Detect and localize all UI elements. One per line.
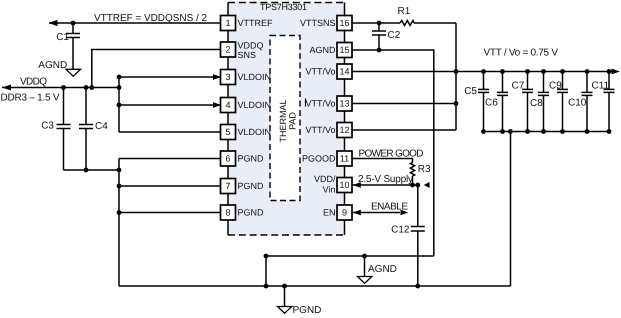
wire pin2 VDDQSNS net <box>92 50 221 88</box>
svg-text:DDR3 – 1.5 V: DDR3 – 1.5 V <box>1 93 60 104</box>
svg-text:PGND: PGND <box>238 208 265 218</box>
wire pin5 VLDOIN net <box>119 77 221 132</box>
svg-text:15: 15 <box>339 45 349 55</box>
svg-text:C2: C2 <box>388 30 401 41</box>
svg-text:C5: C5 <box>464 86 477 97</box>
wire pin14 VTT bus <box>352 69 620 75</box>
svg-text:AGND: AGND <box>309 45 336 55</box>
svg-text:2.5-V Supply: 2.5-V Supply <box>358 174 413 185</box>
wire pin6 PGND net <box>119 158 221 160</box>
svg-text:10: 10 <box>339 180 349 190</box>
svg-text:VTT/Vo: VTT/Vo <box>305 99 335 109</box>
capacitor C2 <box>372 23 401 50</box>
pin 10 <box>337 178 352 193</box>
svg-text:VDD/: VDD/ <box>314 174 336 184</box>
svg-text:VTT/Vo: VTT/Vo <box>305 67 335 77</box>
op-amp U1 TPS7H3301 body <box>228 2 345 235</box>
pin 14 <box>337 64 352 79</box>
wire capacitor bank bottom rail <box>481 129 609 286</box>
ground AGND under C1 <box>38 60 80 76</box>
wire pin11 PGOOD net with resistor R3 <box>352 159 415 188</box>
svg-text:VLDOIN: VLDOIN <box>238 72 272 82</box>
capacitor C5 <box>464 69 489 131</box>
wire pin7 PGND net <box>117 184 221 189</box>
pin 15 <box>337 43 352 58</box>
svg-text:4: 4 <box>225 100 230 110</box>
svg-text:R1: R1 <box>398 6 411 17</box>
pin 4 <box>221 98 236 113</box>
wire pin1 VTTREF net <box>49 20 221 26</box>
pin 12 <box>337 123 352 138</box>
svg-text:C6: C6 <box>485 98 498 109</box>
wire pin13 net <box>352 101 458 106</box>
pin 2 <box>221 42 236 57</box>
svg-text:VDDQ: VDDQ <box>20 77 47 88</box>
svg-text:VTTSNS: VTTSNS <box>300 18 336 28</box>
svg-text:C3: C3 <box>41 121 54 132</box>
wire pin10 supply net <box>352 182 429 188</box>
thermal pad <box>270 36 300 201</box>
capacitor C8 <box>530 69 549 134</box>
capacitor C10 <box>568 69 593 134</box>
pin 1 <box>221 16 236 31</box>
svg-text:C7: C7 <box>512 81 525 92</box>
svg-text:PGND: PGND <box>238 181 265 191</box>
svg-text:PGND: PGND <box>238 154 265 164</box>
svg-text:9: 9 <box>342 208 347 218</box>
svg-text:13: 13 <box>339 99 349 109</box>
capacitor C7 <box>512 69 534 134</box>
svg-text:C9: C9 <box>549 81 562 92</box>
svg-text:Vin: Vin <box>323 185 336 195</box>
capacitor C1 <box>56 21 80 70</box>
svg-text:AGND: AGND <box>38 60 67 71</box>
capacitor C12 <box>391 185 425 286</box>
svg-text:TPS7H3301: TPS7H3301 <box>260 2 307 12</box>
pin 7 <box>221 179 236 194</box>
capacitor C9 <box>549 69 568 134</box>
capacitor C3 <box>41 88 70 171</box>
svg-text:VTTREF: VTTREF <box>238 18 274 28</box>
svg-text:VTT / Vo = 0.75 V: VTT / Vo = 0.75 V <box>484 48 559 59</box>
capacitor C6 <box>485 69 508 134</box>
svg-text:C4: C4 <box>95 121 108 132</box>
svg-text:POWER GOOD: POWER GOOD <box>359 149 424 160</box>
pin 6 <box>221 151 236 166</box>
pin 3 <box>221 70 236 85</box>
svg-text:AGND: AGND <box>368 264 397 275</box>
svg-text:2: 2 <box>225 45 230 55</box>
ground PGND symbol <box>278 286 322 316</box>
svg-text:16: 16 <box>339 18 349 28</box>
pin 16 <box>337 16 352 31</box>
wire pin4 VLDOIN net <box>117 102 221 108</box>
pin 8 <box>221 205 236 220</box>
pin 5 <box>221 125 236 140</box>
pin 13 <box>337 96 352 111</box>
svg-text:C8: C8 <box>530 98 543 109</box>
wire pin3 VLDOIN net <box>117 74 221 80</box>
svg-text:VLDOIN: VLDOIN <box>238 127 272 137</box>
wire pin16 VTTSNS net with R1 <box>352 21 456 131</box>
wire pin8 PGND net <box>117 210 221 215</box>
svg-text:VTT/Vo: VTT/Vo <box>305 125 335 135</box>
svg-text:VLDOIN: VLDOIN <box>238 100 272 110</box>
capacitor C4 <box>79 88 108 171</box>
svg-text:14: 14 <box>339 67 349 77</box>
svg-text:8: 8 <box>225 208 230 218</box>
pin 11 <box>337 151 352 166</box>
pin 9 <box>337 205 352 220</box>
svg-text:VTTREF = VDDQSNS / 2: VTTREF = VDDQSNS / 2 <box>94 13 207 24</box>
svg-text:3: 3 <box>225 72 230 82</box>
svg-text:C12: C12 <box>391 225 410 236</box>
wire AGND rail <box>264 254 434 286</box>
wire C3 C4 join <box>64 168 122 173</box>
svg-text:PGND: PGND <box>293 305 322 316</box>
svg-text:SNS: SNS <box>238 50 257 60</box>
wire pin9 ENABLE net <box>352 210 408 216</box>
svg-text:11: 11 <box>340 154 349 164</box>
svg-text:6: 6 <box>225 154 230 164</box>
svg-text:7: 7 <box>225 181 230 191</box>
wire VDDQ rail <box>2 85 121 91</box>
svg-text:1: 1 <box>225 18 230 28</box>
wire pin15 AGND net <box>352 48 434 256</box>
svg-text:ENABLE: ENABLE <box>371 202 408 213</box>
svg-text:EN: EN <box>323 208 336 218</box>
svg-text:C1: C1 <box>56 32 69 43</box>
wire pin12 net <box>352 129 456 131</box>
svg-text:12: 12 <box>339 125 349 135</box>
svg-text:C10: C10 <box>568 98 587 109</box>
ground AGND symbol bottom <box>358 256 397 283</box>
svg-text:PGOOD: PGOOD <box>302 154 336 164</box>
svg-text:C11: C11 <box>592 81 610 92</box>
svg-text:5: 5 <box>225 127 230 137</box>
svg-text:VDDQ: VDDQ <box>238 41 264 51</box>
wire PGND bottom rail <box>119 284 511 289</box>
capacitor C11 <box>592 69 615 134</box>
wire PGND left vertical <box>118 159 120 287</box>
svg-text:R3: R3 <box>418 164 431 175</box>
